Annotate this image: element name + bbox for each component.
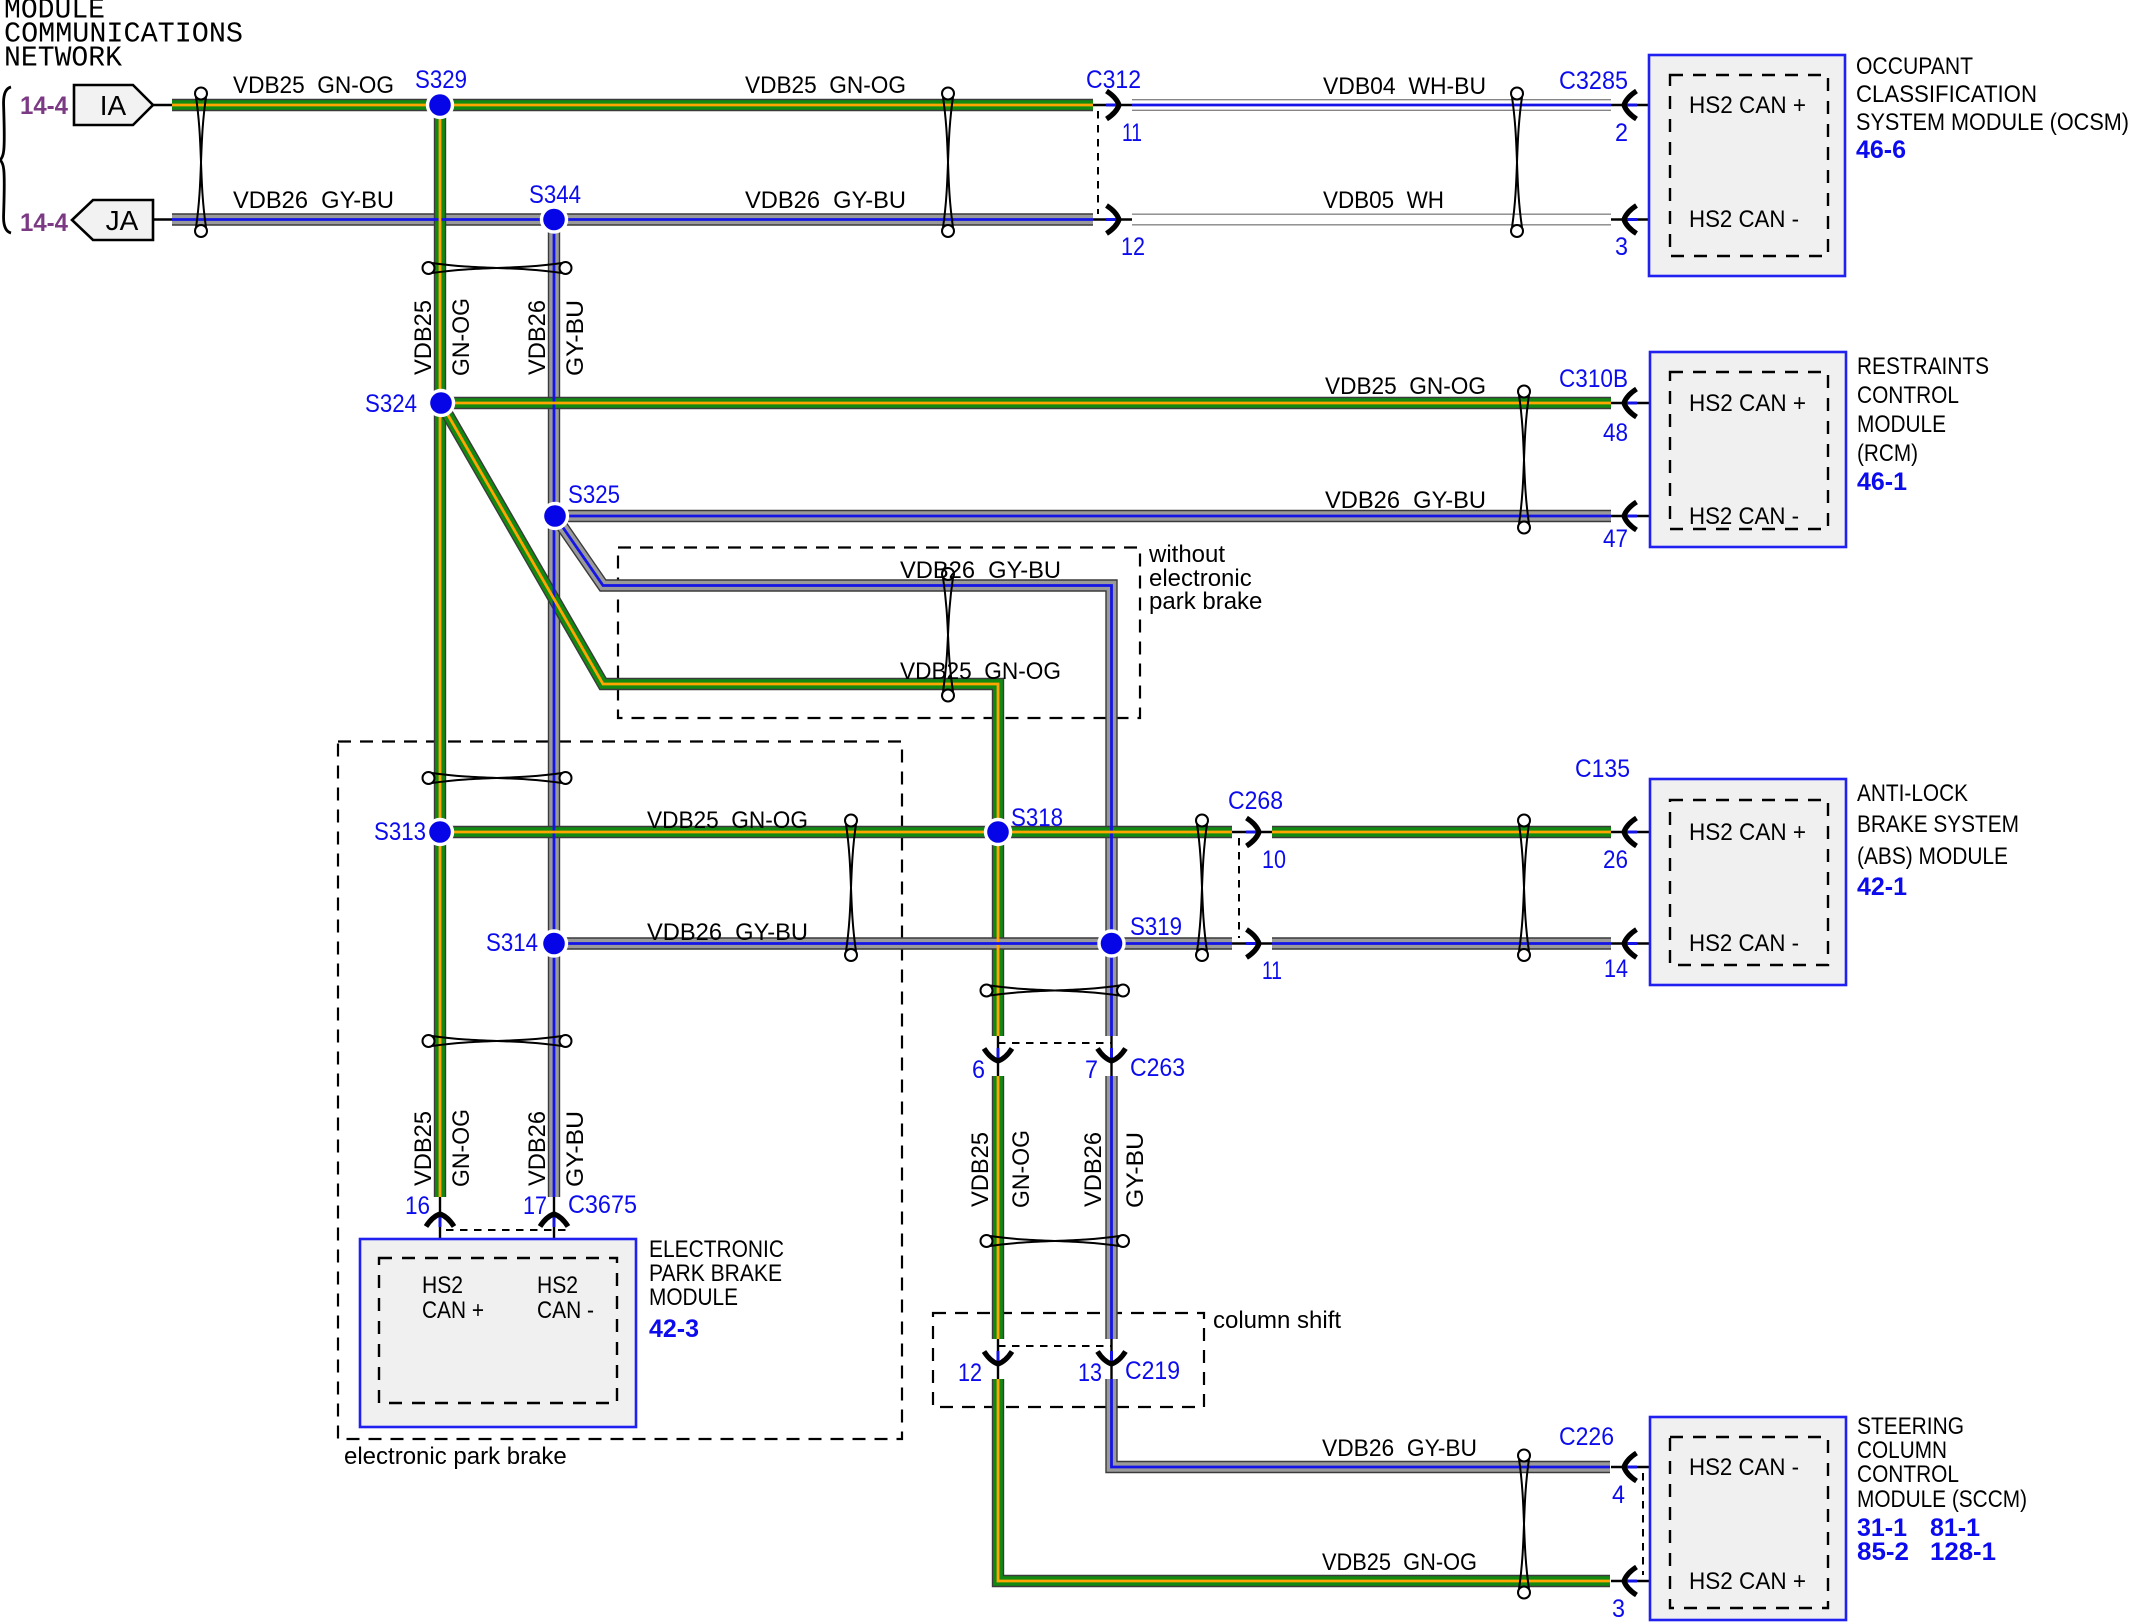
pin 3 C226: [1612, 1595, 1625, 1623]
twisted pair below S313/S314: [423, 1035, 572, 1047]
svg-text:VDB25: VDB25: [410, 300, 437, 375]
pin 14 C135: [1604, 955, 1628, 983]
rot label GY-BU V4: [1122, 1132, 1149, 1208]
svg-text:park brake: park brake: [1149, 588, 1262, 615]
svg-text:2: 2: [1615, 119, 1628, 147]
stripe of VDB25 S324-SCCM: [441, 403, 1610, 1581]
lead C219 pin 12: [997, 1339, 999, 1379]
page ref 14-4 (IA): [20, 92, 68, 120]
wire VDB25 vertical S329-S324-S313-C3675 (body): [434, 105, 446, 1197]
label VDB25 GN-OG (RCM run): [1325, 373, 1486, 400]
svg-text:MODULE (SCCM): MODULE (SCCM): [1857, 1486, 2027, 1513]
label C226: [1559, 1423, 1614, 1451]
module SCCM box: [1650, 1417, 1846, 1620]
pin 6 C263: [972, 1056, 985, 1084]
twisted pair before C312: [942, 88, 954, 238]
svg-text:CAN +: CAN +: [422, 1297, 484, 1324]
svg-text:S313: S313: [374, 818, 426, 846]
svg-text:10: 10: [1262, 846, 1286, 874]
svg-text:HS2 CAN -: HS2 CAN -: [1689, 206, 1799, 233]
svg-text:VDB26: VDB26: [524, 1111, 551, 1186]
svg-text:C226: C226: [1559, 1423, 1614, 1451]
pin 13 C219: [1078, 1359, 1102, 1387]
svg-text:3: 3: [1612, 1595, 1625, 1623]
twisted pair before C268: [1196, 815, 1208, 962]
svg-text:C219: C219: [1125, 1357, 1180, 1385]
pin name HS2 CAN + RCM: [1689, 390, 1806, 417]
svg-text:C135: C135: [1575, 755, 1630, 783]
svg-text:7: 7: [1085, 1056, 1098, 1084]
twisted pair before C3285: [1511, 88, 1523, 238]
svg-text:HS2 CAN +: HS2 CAN +: [1689, 92, 1806, 119]
connector JA pentagon: [72, 200, 172, 240]
svg-text:CAN -: CAN -: [537, 1297, 594, 1324]
svg-text:(RCM): (RCM): [1857, 440, 1918, 467]
svg-text:4: 4: [1612, 1481, 1625, 1509]
label S324: [365, 390, 417, 418]
label VDB26 GY-BU (without epb): [900, 557, 1061, 584]
svg-text:48: 48: [1603, 419, 1628, 447]
svg-text:VDB25 GN-OG: VDB25 GN-OG: [1325, 373, 1486, 400]
svg-text:VDB26 GY-BU: VDB26 GY-BU: [647, 919, 808, 946]
label IA: [100, 90, 127, 121]
svg-text:S325: S325: [568, 481, 620, 509]
label VDB26 GY-BU (S344 run): [745, 187, 906, 214]
stripe of VDB26 from JA: [172, 218, 1093, 221]
svg-text:VDB26 GY-BU: VDB26 GY-BU: [233, 187, 394, 214]
pin name HS2 CAN - EPB: [537, 1272, 594, 1324]
rot label GY-BU lower V2: [562, 1111, 589, 1187]
connector C312 dashed line: [1097, 111, 1099, 214]
twisted pair below S318/S319: [981, 985, 1130, 997]
svg-text:13: 13: [1078, 1359, 1102, 1387]
svg-text:S319: S319: [1130, 913, 1182, 941]
pin 48 C310B: [1603, 419, 1628, 447]
svg-text:12: 12: [1121, 233, 1145, 261]
svg-text:JA: JA: [106, 205, 139, 236]
wire VDB05 WH C312 to OCSM: [1132, 214, 1611, 226]
pin 2 C3285: [1615, 119, 1628, 147]
lead C263 pin 6: [997, 1036, 999, 1076]
svg-text:26: 26: [1603, 846, 1628, 874]
title OCSM: [1856, 53, 2129, 164]
svg-text:S318: S318: [1011, 804, 1063, 832]
pin name HS2 CAN + SCCM: [1689, 1568, 1806, 1595]
rot label GY-BU upper: [562, 300, 589, 376]
arrow C312 pin 11: [1106, 91, 1119, 119]
stripe of vertical VDB26: [553, 220, 556, 1198]
label VDB05 WH: [1323, 187, 1444, 214]
arrow C219 pin 12: [984, 1351, 1012, 1364]
rot label VDB26 lower V2: [524, 1111, 551, 1186]
splice S329: [426, 91, 454, 119]
twisted pair IA/JA: [195, 88, 207, 238]
twisted pair above S313/S314: [423, 772, 572, 784]
svg-text:VDB25 GN-OG: VDB25 GN-OG: [745, 72, 906, 99]
svg-text:S324: S324: [365, 390, 417, 418]
svg-text:S329: S329: [415, 66, 467, 94]
label VDB26 GY-BU (JA run): [233, 187, 394, 214]
lead C3675 pin 17: [553, 1197, 555, 1262]
svg-text:VDB25 GN-OG: VDB25 GN-OG: [233, 72, 394, 99]
lead C226 pin 4: [1611, 1466, 1680, 1468]
module ABS box: [1650, 779, 1846, 985]
svg-text:14-4: 14-4: [20, 209, 68, 237]
svg-text:column shift: column shift: [1213, 1307, 1341, 1334]
column shift dashed group box: [933, 1313, 1204, 1407]
splice S344: [540, 205, 568, 233]
arrow C3285 pin 3: [1624, 206, 1637, 234]
connector C3675 dashed line: [446, 1229, 570, 1231]
svg-text:14-4: 14-4: [20, 92, 68, 120]
title MODULE COMMUNICATIONS NETWORK: [4, 0, 243, 75]
svg-text:11: 11: [1122, 119, 1142, 147]
svg-text:128-1: 128-1: [1930, 1538, 1996, 1566]
svg-text:S344: S344: [529, 181, 581, 209]
svg-text:3: 3: [1615, 233, 1628, 261]
wire VDB25 S324-S318-C219-SCCM (body): [441, 403, 1610, 1581]
arrow C263 pin 6: [984, 1048, 1012, 1061]
arrow C3675 pin 16: [426, 1214, 454, 1227]
svg-text:SYSTEM MODULE (OCSM): SYSTEM MODULE (OCSM): [1856, 109, 2129, 136]
rot label GN-OG V3: [1008, 1130, 1035, 1208]
svg-text:HS2: HS2: [422, 1272, 463, 1299]
twisted pair above C219: [981, 1235, 1130, 1247]
lead C135 pin 14: [1611, 942, 1680, 944]
arrow C3285 pin 2: [1624, 91, 1637, 119]
wire VDB26 S325 to RCM (body): [555, 510, 1611, 522]
label S344: [529, 181, 581, 209]
twisted pair below S329/S344: [423, 262, 572, 274]
arrow C263 pin 7: [1098, 1048, 1126, 1061]
label S318: [1011, 804, 1063, 832]
lead C226 pin 3: [1611, 1580, 1680, 1582]
svg-text:GN-OG: GN-OG: [448, 298, 475, 376]
svg-text:VDB25: VDB25: [967, 1132, 994, 1207]
splice S325: [541, 502, 569, 530]
connector C268 dashed line: [1238, 838, 1240, 938]
label S314: [486, 929, 538, 957]
stripe of VDB26 S314-ABS: [554, 942, 1611, 945]
svg-text:GY-BU: GY-BU: [562, 300, 589, 376]
arrow C3675 pin 17: [540, 1214, 568, 1227]
wire VDB25 S324 to RCM (body): [441, 397, 1611, 409]
svg-text:(ABS) MODULE: (ABS) MODULE: [1857, 843, 2008, 870]
rot label VDB26 upper: [524, 300, 551, 375]
svg-text:without: without: [1148, 541, 1225, 568]
arrow C268 pin 10: [1246, 818, 1259, 846]
pin name HS2 CAN + OCSM: [1689, 92, 1806, 119]
splice S314: [540, 929, 568, 957]
electronic park brake dashed group box: [338, 742, 902, 1440]
arrow C310B pin 47: [1624, 502, 1637, 530]
label VDB25 GN-OG (S329 run): [745, 72, 906, 99]
splice S313: [426, 818, 454, 846]
wire VDB26 vertical S344-S325-S314-C3675 (body): [548, 220, 560, 1198]
svg-text:GN-OG: GN-OG: [448, 1109, 475, 1187]
label VDB26 GY-BU (RCM run): [1325, 487, 1486, 514]
svg-text:46-6: 46-6: [1856, 136, 1906, 164]
label JA: [106, 205, 139, 236]
svg-text:VDB25 GN-OG: VDB25 GN-OG: [647, 807, 808, 834]
label S329: [415, 66, 467, 94]
stripe of VDB26 S325-SCCM: [555, 516, 1610, 1467]
label C135: [1575, 755, 1630, 783]
svg-text:VDB26 GY-BU: VDB26 GY-BU: [745, 187, 906, 214]
splice S319: [1097, 929, 1125, 957]
twisted pair before C310B: [1518, 386, 1530, 534]
pin name HS2 CAN + ABS: [1689, 819, 1806, 846]
svg-text:ELECTRONIC: ELECTRONIC: [649, 1236, 784, 1263]
stripe of VDB25 from IA: [172, 104, 1093, 107]
svg-text:47: 47: [1603, 525, 1628, 553]
wire VDB25 S313-S318-C268-ABS (body): [440, 826, 1611, 838]
lead C3285 pin 3: [1611, 218, 1680, 220]
without electronic park brake dashed group box: [618, 548, 1140, 719]
svg-text:VDB25: VDB25: [410, 1111, 437, 1186]
connector IA pentagon: [74, 85, 172, 125]
svg-text:HS2 CAN +: HS2 CAN +: [1689, 390, 1806, 417]
svg-text:C3285: C3285: [1559, 67, 1628, 95]
label C312: [1086, 66, 1141, 94]
svg-text:VDB25 GN-OG: VDB25 GN-OG: [900, 658, 1061, 685]
svg-text:42-3: 42-3: [649, 1315, 699, 1343]
svg-text:STEERING: STEERING: [1857, 1413, 1964, 1440]
wire VDB26 S314-S319-C268-ABS (body): [554, 937, 1611, 949]
arrow C268 pin 11: [1246, 930, 1259, 958]
svg-text:16: 16: [405, 1192, 430, 1220]
svg-text:CONTROL: CONTROL: [1857, 382, 1959, 409]
title RCM: [1857, 353, 1989, 496]
pin name HS2 CAN - SCCM: [1689, 1454, 1799, 1481]
label S313: [374, 818, 426, 846]
svg-text:CONTROL: CONTROL: [1857, 1461, 1959, 1488]
svg-text:VDB04 WH-BU: VDB04 WH-BU: [1323, 73, 1486, 100]
label VDB04 WH-BU: [1323, 73, 1486, 100]
twisted pair without-epb pair: [942, 568, 954, 702]
lead C312 pin 11: [1093, 104, 1132, 106]
stripe of VDB25 S324-RCM: [441, 402, 1611, 405]
arrow C135 pin 14: [1624, 930, 1637, 958]
svg-text:RESTRAINTS: RESTRAINTS: [1857, 353, 1989, 380]
svg-text:C312: C312: [1086, 66, 1141, 94]
rot label GN-OG upper: [448, 298, 475, 376]
svg-text:IA: IA: [100, 90, 127, 121]
svg-text:14: 14: [1604, 955, 1628, 983]
arrow C312 pin 12: [1106, 206, 1119, 234]
label C3675: [568, 1191, 637, 1219]
title SCCM: [1857, 1413, 2027, 1566]
svg-text:HS2 CAN +: HS2 CAN +: [1689, 1568, 1806, 1595]
note electronic park brake: [344, 1443, 567, 1470]
svg-text:C3675: C3675: [568, 1191, 637, 1219]
svg-text:MODULE: MODULE: [1857, 411, 1946, 438]
svg-text:C310B: C310B: [1559, 365, 1628, 393]
svg-text:VDB26: VDB26: [524, 300, 551, 375]
svg-text:CLASSIFICATION: CLASSIFICATION: [1856, 81, 2037, 108]
lead C268 pin 11: [1232, 942, 1272, 944]
module EPB box: [360, 1239, 636, 1427]
wire VDB25 GN-OG from IA (body): [172, 99, 1093, 111]
connector C226 dashed line: [1642, 1473, 1644, 1575]
stripe of VDB25 S313-ABS: [440, 831, 1611, 834]
title ABS: [1857, 780, 2019, 901]
title EPB: [649, 1236, 784, 1343]
pin name HS2 CAN - ABS: [1689, 930, 1799, 957]
pin 11 C268: [1262, 957, 1282, 985]
label VDB25 GN-OG (SCCM run): [1322, 1549, 1477, 1576]
splice S318: [984, 818, 1012, 846]
svg-text:MODULE: MODULE: [649, 1284, 738, 1311]
svg-text:VDB26 GY-BU: VDB26 GY-BU: [1325, 487, 1486, 514]
arrow C226 pin 4: [1624, 1453, 1637, 1481]
lead C312 pin 12: [1093, 218, 1132, 220]
lead C310B pin 48: [1611, 402, 1680, 404]
note column shift: [1213, 1307, 1341, 1334]
svg-text:C263: C263: [1130, 1054, 1185, 1082]
svg-text:VDB26 GY-BU: VDB26 GY-BU: [900, 557, 1061, 584]
twisted pair left of S318: [845, 815, 857, 962]
lead C310B pin 47: [1611, 515, 1680, 517]
lead C263 pin 7: [1110, 1036, 1112, 1076]
label C268: [1228, 787, 1283, 815]
svg-text:PARK BRAKE: PARK BRAKE: [649, 1260, 782, 1287]
svg-text:12: 12: [958, 1359, 982, 1387]
svg-text:C268: C268: [1228, 787, 1283, 815]
pin 3 C3285: [1615, 233, 1628, 261]
svg-text:ANTI-LOCK: ANTI-LOCK: [1857, 780, 1968, 807]
svg-text:11: 11: [1262, 957, 1282, 985]
svg-text:GN-OG: GN-OG: [1008, 1130, 1035, 1208]
svg-text:COLUMN: COLUMN: [1857, 1437, 1947, 1464]
arrow C226 pin 3: [1624, 1567, 1637, 1595]
connector C219 dashed line: [998, 1345, 1111, 1347]
connector C263 dashed line: [998, 1042, 1111, 1044]
label VDB25 GN-OG (without epb): [900, 658, 1061, 685]
pin 12 C312: [1121, 233, 1145, 261]
label VDB26 GY-BU (S314 run): [647, 919, 808, 946]
svg-text:GY-BU: GY-BU: [562, 1111, 589, 1187]
label S325: [568, 481, 620, 509]
lead C135 pin 26: [1611, 831, 1680, 833]
lead C268 pin 10: [1232, 831, 1272, 833]
rot label VDB25 upper: [410, 300, 437, 375]
svg-text:6: 6: [972, 1056, 985, 1084]
pin 47 C310B: [1603, 525, 1628, 553]
splice S324: [427, 389, 455, 417]
svg-text:HS2 CAN -: HS2 CAN -: [1689, 1454, 1799, 1481]
svg-text:GY-BU: GY-BU: [1122, 1132, 1149, 1208]
pin 11 C312: [1122, 119, 1142, 147]
svg-text:85-2: 85-2: [1857, 1538, 1909, 1566]
pin 17 C3675: [523, 1192, 547, 1220]
pin 12 C219: [958, 1359, 982, 1387]
svg-text:OCCUPANT: OCCUPANT: [1856, 53, 1973, 80]
lead C3285 pin 2: [1611, 104, 1680, 106]
stripe of VDB26 S325-RCM: [555, 515, 1611, 518]
twisted pair before C226: [1518, 1450, 1530, 1599]
pin 4 C226: [1612, 1481, 1625, 1509]
svg-text:NETWORK: NETWORK: [4, 42, 123, 75]
pin 26 C135: [1603, 846, 1628, 874]
svg-text:BRAKE SYSTEM: BRAKE SYSTEM: [1857, 811, 2019, 838]
label C263: [1130, 1054, 1185, 1082]
svg-text:S314: S314: [486, 929, 538, 957]
brace left of IA/JA: [0, 87, 11, 233]
rot label GN-OG lower V1: [448, 1109, 475, 1187]
rot label VDB25 lower V1: [410, 1111, 437, 1186]
stripe of vertical VDB25: [439, 105, 442, 1197]
pin 16 C3675: [405, 1192, 430, 1220]
svg-text:HS2 CAN -: HS2 CAN -: [1689, 930, 1799, 957]
svg-text:46-1: 46-1: [1857, 468, 1907, 496]
svg-text:VDB25 GN-OG: VDB25 GN-OG: [1322, 1549, 1477, 1576]
wire VDB26 GY-BU from JA (body): [172, 213, 1093, 225]
svg-text:HS2 CAN -: HS2 CAN -: [1689, 503, 1799, 530]
arrow C135 pin 26: [1624, 818, 1637, 846]
svg-text:VDB05 WH: VDB05 WH: [1323, 187, 1444, 214]
svg-text:17: 17: [523, 1192, 547, 1220]
svg-text:HS2: HS2: [537, 1272, 578, 1299]
label C219: [1125, 1357, 1180, 1385]
pin name HS2 CAN - OCSM: [1689, 206, 1799, 233]
note without electronic park brake: [1148, 541, 1262, 615]
svg-text:VDB26 GY-BU: VDB26 GY-BU: [1322, 1435, 1477, 1462]
page ref 14-4 (JA): [20, 209, 68, 237]
svg-text:42-1: 42-1: [1857, 873, 1907, 901]
module OCSM box: [1649, 55, 1845, 276]
pin 7 C263: [1085, 1056, 1098, 1084]
svg-text:electronic park brake: electronic park brake: [344, 1443, 567, 1470]
wire VDB04 WH-BU C312 to OCSM: [1132, 99, 1611, 111]
label VDB25 GN-OG (IA run): [233, 72, 394, 99]
arrow C310B pin 48: [1624, 389, 1637, 417]
arrow C219 pin 13: [1098, 1351, 1126, 1364]
lead C3675 pin 16: [439, 1197, 441, 1262]
twisted pair before C135: [1518, 815, 1530, 962]
wire VDB26 S325-S319-C219-SCCM (body): [555, 516, 1610, 1467]
pin name HS2 CAN - RCM: [1689, 503, 1799, 530]
lead C219 pin 13: [1110, 1339, 1112, 1379]
rot label VDB26 V4: [1080, 1132, 1107, 1207]
rot label VDB25 V3: [967, 1132, 994, 1207]
module RCM box: [1650, 352, 1846, 547]
svg-text:VDB26: VDB26: [1080, 1132, 1107, 1207]
label VDB25 GN-OG (S313 run): [647, 807, 808, 834]
pin 10 C268: [1262, 846, 1286, 874]
label C310B: [1559, 365, 1628, 393]
label S319: [1130, 913, 1182, 941]
pin name HS2 CAN + EPB: [422, 1272, 484, 1324]
label VDB26 GY-BU (SCCM run): [1322, 1435, 1477, 1462]
label C3285: [1559, 67, 1628, 95]
svg-text:HS2 CAN +: HS2 CAN +: [1689, 819, 1806, 846]
